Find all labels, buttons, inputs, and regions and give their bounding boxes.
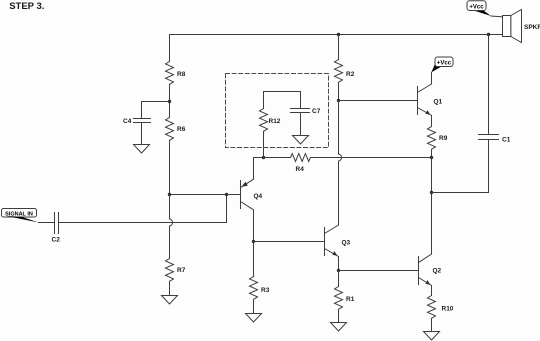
wire R1 top lead bbox=[338, 271, 340, 287]
ground below C7 bbox=[293, 136, 309, 145]
wire C7 top lead bbox=[300, 92, 302, 109]
resistor R6 bbox=[166, 118, 174, 141]
resistor R1 bbox=[335, 287, 343, 310]
node base loop junction bbox=[225, 193, 228, 196]
resistor R12 bbox=[260, 109, 268, 132]
transistor Q1 bbox=[418, 73, 443, 127]
node C4 junction bbox=[168, 100, 171, 103]
svg-text:R8: R8 bbox=[177, 71, 186, 78]
wire Q4 collector to Q3 base bbox=[254, 241, 325, 243]
wire R12 C7 top link bbox=[264, 92, 301, 109]
node speaker C1 junction bbox=[487, 33, 490, 36]
transistor Q2 bbox=[419, 158, 442, 296]
wire C2 to base loop bbox=[59, 195, 227, 223]
svg-text:Q2: Q2 bbox=[433, 268, 442, 275]
svg-text:R2: R2 bbox=[346, 71, 355, 78]
power +Vcc top right bbox=[467, 1, 491, 16]
wire R12 to R4 wire bbox=[263, 132, 265, 158]
svg-text:+Vcc: +Vcc bbox=[469, 5, 484, 11]
svg-text:C1: C1 bbox=[502, 137, 511, 144]
ground below C4 bbox=[134, 145, 150, 154]
wire left rail upper bbox=[169, 35, 171, 62]
wire R2 to Q1 base junction bbox=[338, 83, 340, 101]
svg-text:C7: C7 bbox=[312, 108, 321, 115]
wire mid rail with hop over R4 wire bbox=[339, 101, 342, 226]
resistor R7 bbox=[166, 259, 174, 282]
wire C1 top lead bbox=[488, 35, 490, 135]
wire R8 to R6 bbox=[169, 85, 171, 118]
svg-text:C2: C2 bbox=[52, 237, 61, 244]
wire Q3 emitter to Q2 base bbox=[339, 270, 419, 272]
capacitor C4 bbox=[134, 119, 151, 123]
ground below R3 bbox=[246, 314, 262, 323]
wire C7 to ground bbox=[300, 113, 302, 136]
svg-text:+Vcc: +Vcc bbox=[437, 61, 452, 67]
node R9 R4 Q2 junction bbox=[430, 156, 433, 159]
resistor R10 bbox=[428, 296, 436, 319]
node Q1 base junction bbox=[337, 99, 340, 102]
transistor Q4 bbox=[241, 158, 263, 242]
wire R9 bottom lead bbox=[431, 150, 433, 158]
wire base of Q4 bbox=[170, 194, 241, 196]
node Q4 collector junction bbox=[252, 240, 255, 243]
svg-text:R4: R4 bbox=[296, 166, 305, 173]
capacitor C2 bbox=[55, 213, 59, 234]
wire R6 down with hop over signal wire bbox=[170, 141, 173, 259]
wire R3 to ground bbox=[253, 300, 255, 314]
ground below R7 bbox=[162, 296, 178, 305]
capacitor C1 bbox=[479, 135, 499, 140]
node Q3 emitter junction bbox=[337, 269, 340, 272]
SIGNAL IN label bbox=[2, 209, 39, 223]
node R2 top junction bbox=[337, 33, 340, 36]
wire R7 to ground bbox=[169, 282, 171, 296]
svg-text:R7: R7 bbox=[177, 267, 186, 274]
wire C1 bottom to Q2 collector bbox=[432, 140, 489, 193]
resistor R4 bbox=[291, 154, 311, 162]
svg-text:Q4: Q4 bbox=[254, 193, 263, 200]
wire Vcc to speaker bbox=[491, 15, 503, 18]
resistor R8 bbox=[166, 62, 174, 85]
wire R10 to ground bbox=[431, 319, 433, 332]
svg-text:R9: R9 bbox=[439, 135, 448, 142]
svg-text:Q3: Q3 bbox=[342, 240, 351, 247]
svg-text:R12: R12 bbox=[269, 118, 281, 125]
wire C4 to ground bbox=[141, 123, 143, 145]
capacitor C7 bbox=[291, 109, 310, 113]
svg-text:R3: R3 bbox=[261, 287, 270, 294]
node C1 bottom junction bbox=[430, 191, 433, 194]
dashed box bbox=[226, 74, 329, 148]
wire R4 left segment bbox=[254, 157, 291, 159]
svg-text:R10: R10 bbox=[442, 306, 454, 313]
svg-text:R1: R1 bbox=[346, 296, 355, 303]
resistor R2 bbox=[335, 60, 343, 83]
resistor R3 bbox=[250, 277, 258, 300]
wire signal in to C2 bbox=[39, 222, 55, 224]
resistor R9 bbox=[428, 127, 436, 150]
wire R1 to ground bbox=[338, 310, 340, 323]
svg-text:Q1: Q1 bbox=[434, 99, 443, 106]
wire R4 right segment bbox=[311, 157, 432, 159]
svg-text:C4: C4 bbox=[123, 118, 132, 125]
ground below R1 bbox=[331, 323, 347, 332]
speaker SPKR bbox=[503, 10, 540, 43]
svg-text:R6: R6 bbox=[177, 126, 186, 133]
wire Q4 collector to R3 bbox=[253, 242, 255, 277]
node rail base junction bbox=[168, 193, 171, 196]
svg-text:SPKR: SPKR bbox=[524, 24, 540, 31]
node R12 junction bbox=[262, 156, 265, 159]
svg-text:STEP 3.: STEP 3. bbox=[9, 1, 44, 12]
wire C4 branch bbox=[142, 102, 170, 119]
power +Vcc at Q1 bbox=[431, 57, 453, 72]
transistor Q3 bbox=[325, 225, 351, 271]
ground below R10 bbox=[424, 332, 440, 341]
wire R2 top lead bbox=[338, 35, 340, 60]
wire Q1 base bbox=[339, 100, 418, 102]
wire top rail bbox=[170, 34, 503, 36]
